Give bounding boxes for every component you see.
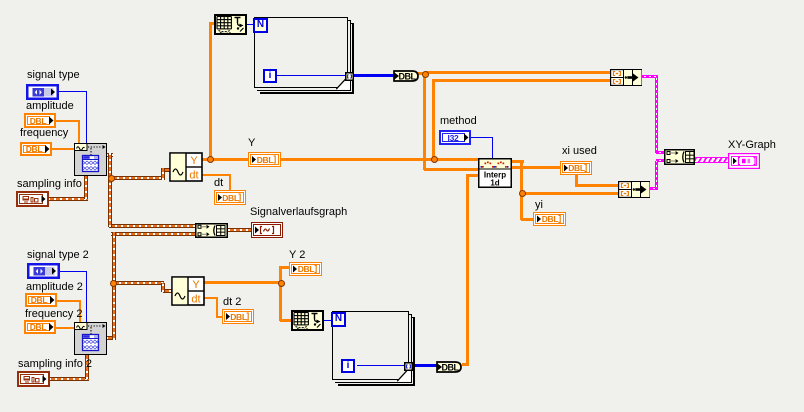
svg-text:Y: Y — [192, 279, 200, 291]
svg-text:dt: dt — [191, 294, 200, 306]
svg-text:DBL: DBL — [298, 264, 315, 274]
svg-text:DBL: DBL — [399, 71, 417, 81]
svg-text:DBL: DBL — [26, 144, 43, 154]
svg-text:DBL: DBL — [442, 362, 460, 372]
svg-text:DBL: DBL — [568, 163, 585, 173]
svg-text:DBL: DBL — [31, 295, 48, 305]
svg-text:dt: dt — [189, 170, 198, 182]
svg-text:DBL: DBL — [222, 193, 239, 203]
svg-text:DBL: DBL — [230, 312, 247, 322]
svg-text:Y: Y — [190, 155, 198, 167]
svg-text:DBL: DBL — [257, 155, 274, 165]
svg-text:I32: I32 — [448, 133, 459, 143]
svg-text:DBL: DBL — [30, 116, 47, 126]
svg-text:DBL: DBL — [30, 322, 47, 332]
svg-text:DBL: DBL — [542, 214, 559, 224]
svg-text:1d: 1d — [490, 179, 499, 188]
